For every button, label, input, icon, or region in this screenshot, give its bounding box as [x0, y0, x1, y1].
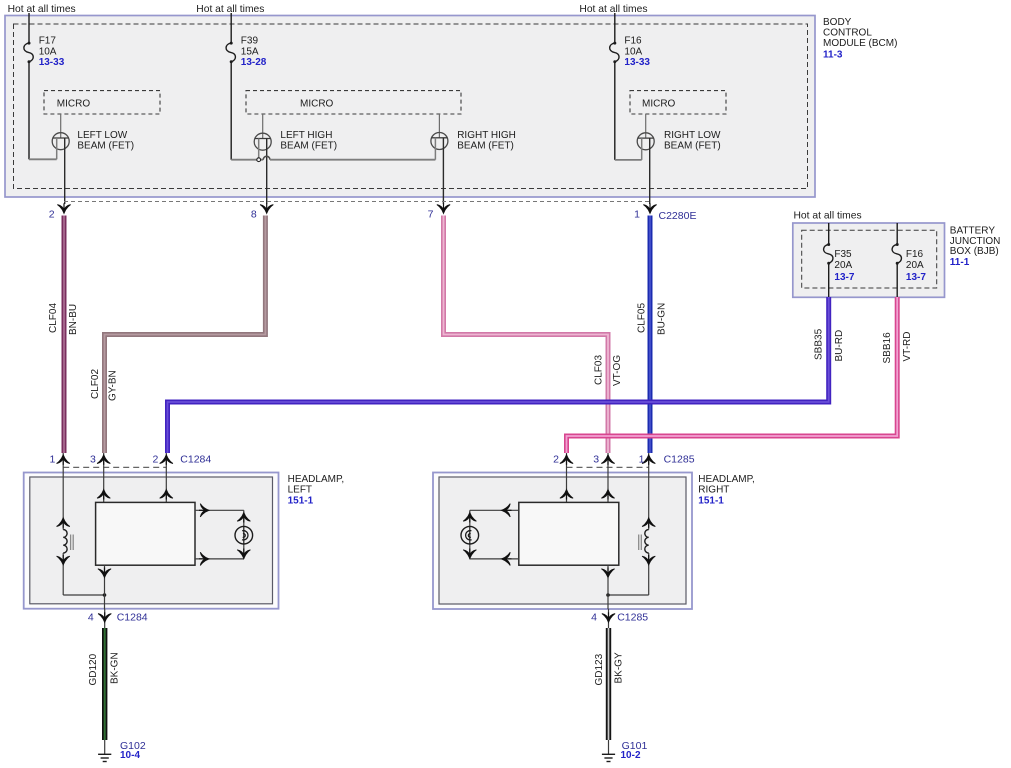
svg-text:C2280E: C2280E: [659, 210, 697, 222]
svg-text:F16: F16: [906, 249, 924, 260]
svg-text:11-3: 11-3: [823, 50, 843, 61]
svg-text:CLF04: CLF04: [48, 303, 59, 333]
svg-text:10-4: 10-4: [120, 750, 140, 761]
svg-text:15A: 15A: [241, 46, 259, 57]
svg-text:1: 1: [639, 454, 645, 466]
svg-text:3: 3: [593, 454, 599, 466]
svg-text:10A: 10A: [39, 46, 57, 57]
svg-text:BOX (BJB): BOX (BJB): [950, 246, 999, 257]
svg-text:F35: F35: [834, 249, 852, 260]
svg-text:BK-GN: BK-GN: [109, 652, 120, 684]
svg-text:C1285: C1285: [617, 612, 648, 624]
svg-text:CONTROL: CONTROL: [823, 28, 872, 39]
svg-text:7: 7: [428, 209, 434, 221]
svg-text:RIGHT: RIGHT: [698, 485, 729, 496]
svg-text:Hot at all times: Hot at all times: [196, 4, 264, 15]
svg-text:4: 4: [591, 612, 597, 624]
svg-text:BEAM (FET): BEAM (FET): [664, 140, 721, 151]
svg-text:BODY: BODY: [823, 17, 852, 28]
svg-text:GD123: GD123: [594, 653, 605, 685]
svg-text:3: 3: [90, 454, 96, 466]
svg-text:LEFT LOW: LEFT LOW: [77, 130, 127, 141]
svg-text:151-1: 151-1: [288, 495, 314, 506]
svg-text:BK-GY: BK-GY: [613, 652, 624, 683]
svg-text:SBB35: SBB35: [813, 328, 824, 360]
svg-text:2: 2: [153, 454, 159, 466]
svg-text:F17: F17: [39, 35, 57, 46]
svg-text:BU-GN: BU-GN: [656, 303, 667, 335]
svg-text:GY-BN: GY-BN: [107, 370, 118, 401]
svg-text:MODULE (BCM): MODULE (BCM): [823, 38, 897, 49]
svg-text:GD120: GD120: [88, 653, 99, 685]
svg-text:VT-OG: VT-OG: [612, 355, 623, 386]
svg-text:CLF03: CLF03: [593, 355, 604, 385]
svg-text:RIGHT LOW: RIGHT LOW: [664, 130, 721, 141]
svg-text:MICRO: MICRO: [300, 98, 334, 109]
svg-text:CLF05: CLF05: [636, 303, 647, 333]
svg-text:LEFT HIGH: LEFT HIGH: [280, 130, 332, 141]
svg-text:4: 4: [88, 612, 94, 624]
svg-text:SBB16: SBB16: [882, 332, 893, 364]
svg-text:RIGHT HIGH: RIGHT HIGH: [457, 130, 516, 141]
svg-text:C1284: C1284: [180, 454, 211, 466]
svg-text:2: 2: [553, 454, 559, 466]
svg-text:BEAM (FET): BEAM (FET): [77, 140, 134, 151]
svg-text:F39: F39: [241, 35, 259, 46]
svg-text:1: 1: [49, 454, 55, 466]
svg-text:C1284: C1284: [117, 612, 148, 624]
svg-text:8: 8: [251, 209, 257, 221]
svg-text:BN-BU: BN-BU: [68, 304, 79, 335]
svg-text:Hot at all times: Hot at all times: [794, 211, 862, 222]
svg-text:BEAM (FET): BEAM (FET): [280, 140, 337, 151]
svg-text:13-7: 13-7: [834, 272, 854, 283]
svg-text:1: 1: [634, 209, 640, 221]
svg-text:HEADLAMP,: HEADLAMP,: [288, 474, 345, 485]
svg-text:F16: F16: [624, 35, 642, 46]
svg-text:VT-RD: VT-RD: [902, 332, 913, 362]
svg-text:10-2: 10-2: [621, 750, 641, 761]
svg-text:20A: 20A: [834, 260, 852, 271]
svg-text:MICRO: MICRO: [57, 98, 91, 109]
svg-text:LEFT: LEFT: [288, 485, 312, 496]
svg-text:BEAM (FET): BEAM (FET): [457, 140, 514, 151]
svg-text:MICRO: MICRO: [642, 98, 676, 109]
svg-text:HEADLAMP,: HEADLAMP,: [698, 474, 755, 485]
svg-text:C1285: C1285: [664, 454, 695, 466]
svg-text:151-1: 151-1: [698, 495, 724, 506]
svg-text:Hot at all times: Hot at all times: [579, 4, 647, 15]
svg-text:Hot at all times: Hot at all times: [8, 4, 76, 15]
svg-text:CLF02: CLF02: [90, 369, 101, 399]
svg-text:10A: 10A: [624, 46, 642, 57]
svg-text:2: 2: [49, 209, 55, 221]
svg-text:11-1: 11-1: [950, 257, 970, 268]
svg-text:13-33: 13-33: [39, 57, 65, 68]
svg-text:13-7: 13-7: [906, 272, 926, 283]
svg-text:13-33: 13-33: [624, 57, 650, 68]
svg-text:20A: 20A: [906, 260, 924, 271]
svg-text:BU-RD: BU-RD: [834, 330, 845, 362]
svg-text:13-28: 13-28: [241, 57, 267, 68]
